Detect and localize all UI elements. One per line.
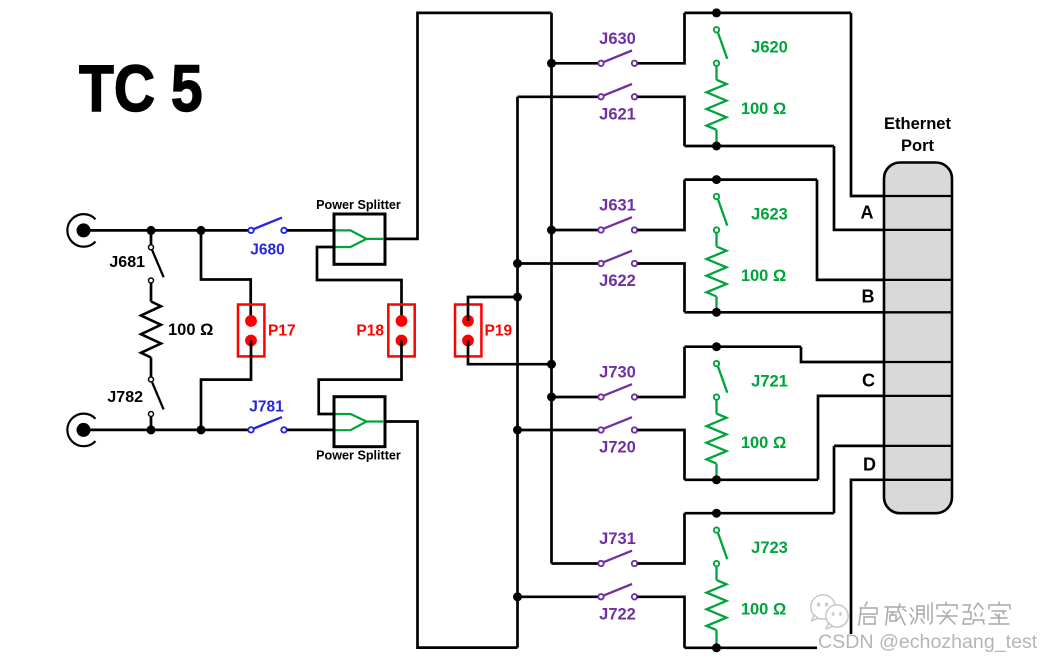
junction J720 on bus	[513, 426, 522, 435]
svg-text:J622: J622	[599, 272, 636, 290]
svg-text:J721: J721	[751, 373, 788, 391]
power splitter PS2	[316, 397, 401, 463]
watermark white glow mask over wires	[817, 634, 1035, 658]
wire bus to switch J720	[518, 429, 599, 432]
junction top of J623	[712, 175, 721, 184]
wire top input line	[90, 229, 248, 232]
pin 6 line across port	[884, 395, 952, 397]
wire pin from J721 bottom rail	[818, 396, 884, 480]
svg-text:100 Ω: 100 Ω	[741, 100, 786, 118]
svg-text:P17: P17	[268, 323, 296, 340]
pin 5 line across port	[884, 361, 952, 363]
svg-text:B: B	[862, 287, 875, 307]
junction top of J721	[712, 342, 721, 351]
wire bottom rail of J623 block to port	[685, 311, 885, 314]
resistor 100 ohm (J721 block)	[707, 400, 787, 480]
wire feed to P17 top	[201, 230, 251, 321]
junction top of J620	[712, 8, 721, 17]
svg-text:A: A	[861, 203, 874, 223]
svg-text:D: D	[863, 455, 876, 475]
bus B vertical	[516, 97, 519, 648]
pin 3 line across port	[884, 279, 952, 281]
wire J781 to splitter	[287, 429, 335, 432]
wire top rail of J723 block	[685, 512, 835, 515]
svg-text:J723: J723	[751, 539, 788, 557]
wire P18 bottom to PS2 upper port	[319, 341, 402, 415]
svg-text:Ethernet: Ethernet	[884, 115, 951, 133]
svg-text:J731: J731	[599, 530, 636, 548]
switch J681	[109, 234, 163, 283]
wire bus to switch J730	[552, 396, 599, 399]
resistor 100 ohm (J623 block)	[707, 233, 787, 312]
svg-text:Power Splitter: Power Splitter	[316, 198, 401, 212]
jumper P18	[356, 305, 414, 357]
wire bottom rail of J721 block	[685, 478, 819, 481]
wire switch J720 output	[638, 430, 685, 480]
wire PS1 output to top rail	[384, 13, 552, 239]
switch J730	[598, 364, 637, 400]
label Ethernet Port	[884, 115, 951, 155]
pin 2 line across port	[884, 229, 952, 231]
svg-text:J681: J681	[109, 254, 145, 271]
wire pin from J721 top rail	[801, 347, 884, 362]
junction node top-left A2	[197, 226, 206, 235]
junction J622 on bus	[513, 259, 522, 268]
wire switch J730 output	[638, 347, 685, 397]
switch J782	[107, 377, 163, 427]
wire P19 top to bus B	[468, 297, 518, 321]
junction bottom of J620	[712, 142, 721, 151]
watermark text CSDN @echozhang_test	[818, 631, 1044, 654]
wire bus to switch J630	[552, 62, 599, 65]
wire top rail of J620 block	[685, 12, 852, 15]
svg-text:100 Ω: 100 Ω	[741, 434, 786, 452]
resistor 100 ohm (J620 block)	[707, 66, 787, 146]
wire bus to switch J631	[552, 229, 599, 232]
wire switch J722 output	[638, 597, 685, 648]
svg-text:100 Ω: 100 Ω	[741, 267, 786, 285]
switch J723	[714, 527, 788, 566]
svg-text:P19: P19	[485, 323, 513, 340]
ethernet port connector body	[884, 163, 952, 514]
svg-text:J620: J620	[751, 39, 788, 57]
switch J680	[248, 218, 286, 259]
junction P19 top on bus B	[513, 293, 522, 302]
svg-text:J621: J621	[599, 106, 636, 124]
junction J730 on bus	[547, 393, 556, 402]
wire return from P17 bottom	[201, 341, 251, 430]
jumper P17	[238, 305, 296, 357]
power splitter PS1	[316, 198, 401, 264]
svg-text:TC 5: TC 5	[79, 52, 203, 126]
wire bottom rail of J723 block	[685, 646, 852, 649]
svg-text:100 Ω: 100 Ω	[168, 321, 213, 339]
watermark text qi wei ce shi yan shi	[859, 602, 1010, 625]
wire switch J630 output	[638, 13, 685, 63]
junction bottom of J623	[712, 308, 721, 317]
pin 4 line across port	[884, 311, 952, 313]
wire pin from J723 top rail	[834, 446, 884, 513]
wire pin from J620 top rail	[851, 13, 884, 196]
svg-text:P18: P18	[356, 323, 384, 340]
junction top of J723	[712, 509, 721, 518]
svg-text:J720: J720	[599, 439, 636, 457]
svg-text:J631: J631	[599, 197, 636, 215]
wire bottom rail of J620 block	[685, 145, 835, 148]
svg-text:J722: J722	[599, 606, 636, 624]
watermark wechat icon	[806, 592, 852, 636]
pin 8 line across port	[884, 479, 952, 481]
svg-text:100 Ω: 100 Ω	[741, 601, 786, 619]
wire bus to switch J722	[518, 595, 599, 598]
switch J631	[598, 197, 637, 233]
svg-text:C: C	[862, 371, 875, 391]
svg-text:Port: Port	[901, 137, 935, 155]
svg-text:J781: J781	[249, 399, 284, 416]
switch J731	[598, 530, 637, 566]
resistor 100 ohm (J723 block)	[707, 567, 787, 648]
junction bottom of J721	[712, 475, 721, 484]
switch J630	[598, 30, 637, 66]
switch J721	[714, 361, 788, 400]
svg-text:J782: J782	[107, 389, 143, 406]
wire top rail of J623 block	[685, 178, 818, 181]
pin 7 line across port	[884, 445, 952, 447]
wire switch J631 output	[638, 180, 685, 230]
coax connector (bottom RF input)	[67, 414, 95, 447]
wire bus to switch J731	[552, 562, 599, 565]
wire bottom input line	[90, 429, 248, 432]
wire switch J622 output	[638, 264, 685, 313]
wire switch J731 output	[638, 513, 685, 563]
junction node bottom-left B1	[147, 425, 156, 434]
wire pin from J620 bottom rail	[834, 146, 884, 230]
wire switch J621 output	[638, 97, 685, 146]
jumper P19	[455, 305, 512, 357]
junction bottom of J723	[712, 643, 721, 652]
switch J622	[598, 251, 637, 291]
junction node top-left A1	[147, 226, 156, 235]
junction node bottom-left B2	[197, 425, 206, 434]
wire PS2 output to bus B	[384, 422, 518, 648]
wire pin from J723 bottom rail	[851, 480, 884, 648]
junction J630 on bus	[547, 59, 556, 68]
wire bus to switch J621	[518, 95, 599, 98]
svg-text:J623: J623	[751, 205, 788, 223]
wire bus to switch J622	[518, 262, 599, 265]
svg-text:Power Splitter: Power Splitter	[316, 449, 401, 463]
wire pin from J623 top rail	[817, 180, 884, 280]
junction P19 bottom on bus A	[547, 360, 556, 369]
resistor 100 ohm (left)	[141, 284, 213, 377]
wire P19 bottom to bus A	[468, 341, 552, 365]
svg-text:J680: J680	[250, 242, 284, 259]
wire J680 to splitter	[287, 229, 335, 232]
svg-text:J630: J630	[599, 30, 636, 48]
switch J623	[714, 194, 788, 233]
switch J781	[248, 399, 286, 433]
bus A vertical	[550, 13, 553, 564]
junction J631 on bus	[547, 226, 556, 235]
switch J722	[598, 584, 637, 624]
svg-text:J730: J730	[599, 364, 636, 382]
junction J722 on bus	[513, 592, 522, 601]
switch J621	[598, 84, 637, 124]
coax connector (top RF input)	[67, 214, 95, 247]
pin 1 line across port	[884, 195, 952, 197]
switch J620	[714, 27, 788, 66]
switch J720	[598, 417, 637, 457]
wire PS1 lower port to P18 top	[317, 247, 402, 321]
wire top rail of J721 block	[685, 345, 802, 348]
